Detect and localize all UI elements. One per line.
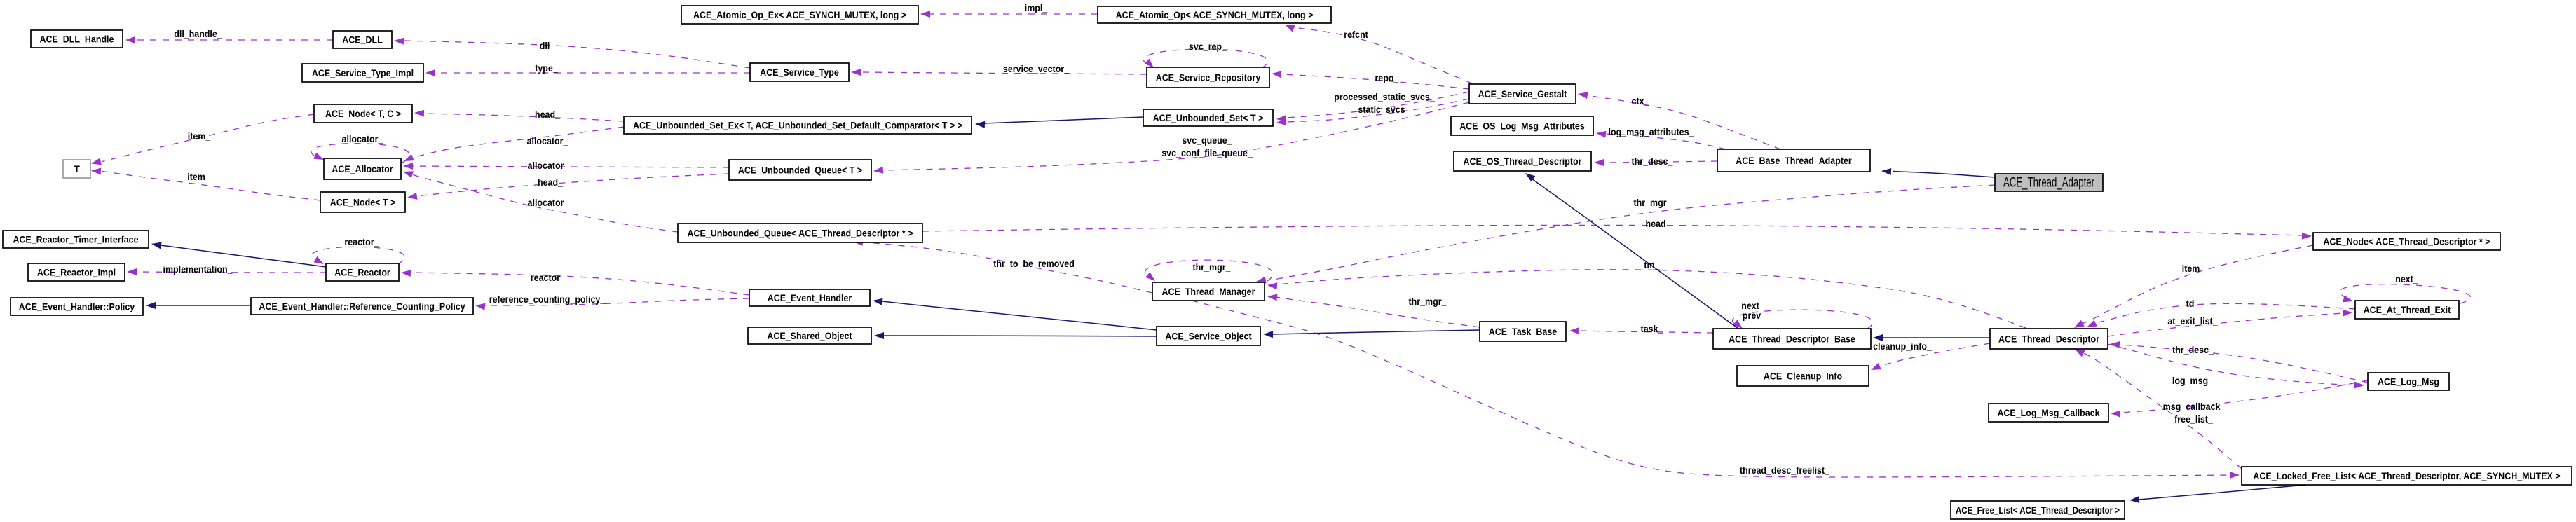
svg-text:svc_queue_: svc_queue_ [1182,135,1232,146]
svg-text:ACE_Allocator: ACE_Allocator [332,163,393,174]
svg-text:ACE_Thread_Descriptor: ACE_Thread_Descriptor [1998,334,2099,345]
svg-text:repo_: repo_ [1375,72,1399,83]
svg-text:thr_to_be_removed_: thr_to_be_removed_ [993,258,1079,269]
svg-text:free_list_: free_list_ [2174,413,2213,425]
svg-text:next_: next_ [2395,273,2418,284]
svg-text:dll_handle_: dll_handle_ [174,28,222,39]
svg-text:ACE_Unbounded_Queue< T >: ACE_Unbounded_Queue< T > [738,165,862,176]
svg-text:ACE_Unbounded_Queue< ACE_Threa: ACE_Unbounded_Queue< ACE_Thread_Descript… [688,228,913,239]
svg-text:ACE_Thread_Adapter: ACE_Thread_Adapter [2003,176,2094,191]
svg-text:ACE_Reactor_Timer_Interface: ACE_Reactor_Timer_Interface [13,234,138,245]
svg-text:ACE_Locked_Free_List< ACE_Thre: ACE_Locked_Free_List< ACE_Thread_Descrip… [2253,470,2560,481]
svg-text:at_exit_list_: at_exit_list_ [2167,315,2217,327]
svg-text:ACE_Service_Gestalt: ACE_Service_Gestalt [1478,88,1567,99]
svg-text:ACE_Cleanup_Info: ACE_Cleanup_Info [1764,371,1842,382]
svg-text:allocator_: allocator_ [528,197,569,208]
svg-text:ACE_Atomic_Op< ACE_SYNCH_MUTEX: ACE_Atomic_Op< ACE_SYNCH_MUTEX, long > [1116,9,1314,20]
svg-text:ACE_Unbounded_Set< T >: ACE_Unbounded_Set< T > [1153,112,1264,123]
svg-text:ACE_Node< ACE_Thread_Descripto: ACE_Node< ACE_Thread_Descriptor * > [2323,236,2490,247]
svg-text:T: T [74,163,80,174]
svg-text:static_svcs_: static_svcs_ [1358,104,1410,115]
svg-text:ACE_Unbounded_Set_Ex< T, ACE_U: ACE_Unbounded_Set_Ex< T, ACE_Unbounded_S… [633,120,962,131]
svg-text:reference_counting_policy_: reference_counting_policy_ [489,294,606,305]
svg-text:ACE_Event_Handler: ACE_Event_Handler [768,292,852,303]
svg-text:thr_mgr_: thr_mgr_ [1634,197,1672,208]
svg-text:thr_mgr_: thr_mgr_ [1409,296,1447,307]
svg-text:svc_conf_file_queue_: svc_conf_file_queue_ [1161,147,1253,158]
svg-text:ACE_At_Thread_Exit: ACE_At_Thread_Exit [2364,304,2451,315]
svg-text:item_: item_ [188,130,211,142]
svg-text:log_msg_attributes_: log_msg_attributes_ [1609,126,1694,137]
svg-text:ACE_Event_Handler::Policy: ACE_Event_Handler::Policy [19,301,135,312]
svg-text:ACE_Node< T, C >: ACE_Node< T, C > [325,108,401,119]
svg-text:ACE_Event_Handler::Reference_C: ACE_Event_Handler::Reference_Counting_Po… [259,301,465,312]
svg-text:ACE_Thread_Descriptor_Base: ACE_Thread_Descriptor_Base [1729,334,1855,345]
svg-text:allocator_: allocator_ [528,160,569,171]
svg-text:head_: head_ [535,109,560,120]
svg-text:thr_mgr_: thr_mgr_ [1193,261,1231,273]
svg-text:thr_desc_: thr_desc_ [1632,156,1673,167]
svg-text:dll_: dll_ [540,40,555,51]
svg-text:impl_: impl_ [1025,2,1048,13]
svg-text:tm_: tm_ [1644,259,1659,270]
svg-text:item_: item_ [187,171,210,182]
svg-text:ACE_Thread_Manager: ACE_Thread_Manager [1162,286,1255,297]
svg-text:ACE_Log_Msg_Callback: ACE_Log_Msg_Callback [1997,407,2099,418]
svg-text:ACE_Service_Type: ACE_Service_Type [760,67,839,78]
svg-text:cleanup_info_: cleanup_info_ [1873,341,1932,352]
svg-text:allocator_: allocator_ [527,135,568,146]
svg-text:thr_desc_: thr_desc_ [2172,344,2214,355]
svg-text:head_: head_ [538,177,563,188]
svg-text:ACE_DLL: ACE_DLL [342,34,383,46]
svg-text:log_msg_: log_msg_ [2172,375,2213,386]
svg-text:processed_static_svcs_: processed_static_svcs_ [1334,91,1435,102]
svg-text:ACE_DLL_Handle: ACE_DLL_Handle [40,34,114,45]
svg-text:ACE_Log_Msg: ACE_Log_Msg [2378,376,2439,387]
svg-text:ACE_Service_Type_Impl: ACE_Service_Type_Impl [312,67,414,78]
svg-text:ACE_OS_Thread_Descriptor: ACE_OS_Thread_Descriptor [1464,156,1582,167]
svg-text:ACE_Reactor_Impl: ACE_Reactor_Impl [37,267,116,278]
svg-text:type_: type_ [535,62,558,74]
svg-text:task_: task_ [1641,323,1663,334]
svg-text:allocator_: allocator_ [342,133,383,144]
svg-text:td_: td_ [2186,298,2200,309]
svg-text:ctx_: ctx_ [1632,95,1649,107]
svg-text:ACE_OS_Log_Msg_Attributes: ACE_OS_Log_Msg_Attributes [1459,121,1585,132]
svg-text:svc_rep_: svc_rep_ [1189,41,1227,52]
svg-text:implementation_: implementation_ [163,263,233,275]
svg-text:refcnt_: refcnt_ [1344,29,1373,40]
svg-text:ACE_Atomic_Op_Ex< ACE_SYNCH_MU: ACE_Atomic_Op_Ex< ACE_SYNCH_MUTEX, long … [693,9,906,20]
svg-text:ACE_Shared_Object: ACE_Shared_Object [767,330,852,341]
svg-text:msg_callback_: msg_callback_ [2163,401,2226,412]
svg-text:item_: item_ [2182,263,2205,274]
svg-text:reactor_: reactor_ [531,272,565,283]
svg-text:ACE_Free_List< ACE_Thread_Desc: ACE_Free_List< ACE_Thread_Descriptor > [1956,504,2120,516]
svg-text:reactor_: reactor_ [344,236,379,247]
svg-text:service_vector_: service_vector_ [1003,63,1069,74]
svg-text:thread_desc_freelist_: thread_desc_freelist_ [1740,465,1829,476]
svg-text:ACE_Base_Thread_Adapter: ACE_Base_Thread_Adapter [1736,155,1852,166]
svg-text:ACE_Service_Object: ACE_Service_Object [1165,331,1252,342]
svg-text:ACE_Task_Base: ACE_Task_Base [1489,326,1558,337]
svg-text:head_: head_ [1646,218,1671,229]
svg-text:ACE_Node< T >: ACE_Node< T > [330,197,396,208]
svg-text:prev_: prev_ [1743,310,1766,321]
svg-text:ACE_Service_Repository: ACE_Service_Repository [1156,72,1261,83]
svg-text:ACE_Reactor: ACE_Reactor [334,267,390,278]
